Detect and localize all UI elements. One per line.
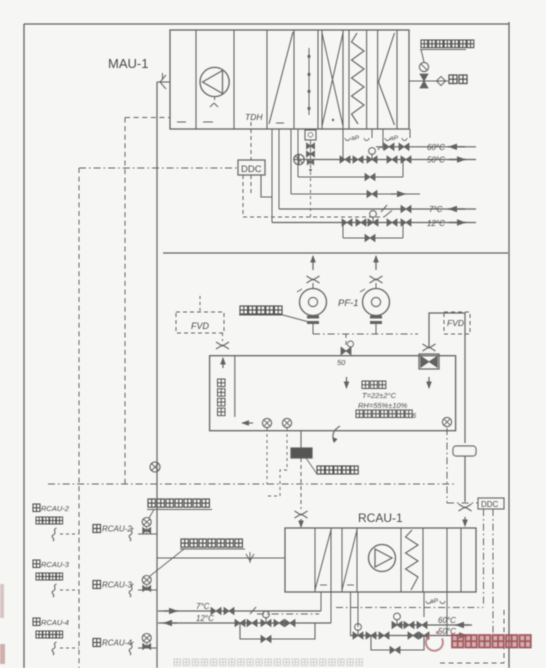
svg-text:TDH: TDH <box>245 112 263 122</box>
motor valve 12C <box>368 219 378 226</box>
dashed drop to shaft <box>222 333 224 341</box>
exhaust fan PF-1 b <box>375 256 377 270</box>
label 新风电动密闭阀 row2 <box>181 539 242 547</box>
dash-dot control line to DDC <box>79 167 238 169</box>
branch label 接RCAU-3 <box>93 581 101 589</box>
label 新风电动密闭阀 row1 <box>148 499 209 507</box>
RCAU divider <box>330 528 332 592</box>
svg-text:12°C: 12°C <box>196 614 214 623</box>
svg-text:50°C: 50°C <box>427 156 445 165</box>
return air shaft wall <box>234 356 236 417</box>
DDC2 wire2 <box>492 509 494 640</box>
coil stub pair B with aP <box>382 129 384 138</box>
MAU section divider <box>293 30 295 129</box>
leader <box>421 50 424 63</box>
RCAU divider <box>356 528 358 592</box>
12C line RCAU <box>158 622 331 624</box>
border top <box>24 23 509 25</box>
leader <box>283 315 309 322</box>
return inlet flex left <box>295 511 308 518</box>
svg-text:DDC: DDC <box>481 500 499 509</box>
svg-text:FVD: FVD <box>447 318 464 328</box>
fresh air riser <box>156 82 158 668</box>
dash marks in MAU cells <box>177 121 186 123</box>
label 新风电动密闭阀 (top) <box>421 40 474 48</box>
12C chilled return line <box>272 222 476 224</box>
muffler <box>453 446 476 456</box>
bypass loop 7/12 <box>343 237 403 239</box>
fire damper FVD left dashed box <box>176 312 224 333</box>
svg-text:T=22±2°C: T=22±2°C <box>362 391 397 400</box>
svg-text:RCAU-3: RCAU-3 <box>102 581 132 590</box>
DDC controller box <box>238 160 265 175</box>
fresh air label 新风 <box>449 75 467 84</box>
RCAU coil stubs with aP <box>423 592 425 601</box>
probe squiggle + wire <box>52 584 56 597</box>
steam line dashed <box>310 172 312 217</box>
bypass loop RCAU chilled <box>240 623 315 639</box>
probe squiggle + wire <box>52 528 56 541</box>
DDC2 wire <box>483 509 485 607</box>
dashed enclosure bottom right <box>503 610 505 663</box>
floor line <box>163 252 508 254</box>
riser from RCAU2 <box>357 592 359 627</box>
riser <box>320 592 322 611</box>
RCAU divider <box>422 528 424 592</box>
airflow arrow into shaft <box>243 422 253 424</box>
duct from cleanroom to silencer <box>300 431 302 448</box>
shaft label 回风夹道 <box>218 379 226 416</box>
RCAU divider <box>400 528 402 592</box>
motor valve 12C RCAU <box>261 620 271 627</box>
temp probe label RCAU-3 <box>33 560 40 568</box>
control trunk <box>48 483 455 485</box>
scan artifact left edge <box>0 584 4 618</box>
branch RCAU-3 <box>129 584 133 597</box>
exhaust fan PF-1 a <box>312 256 314 270</box>
dashed control to 7C valve <box>243 216 384 218</box>
7C chilled supply line <box>279 208 476 210</box>
svg-text:50: 50 <box>337 358 346 367</box>
motorized airtight damper (vertical bowtie + actuator circle) <box>420 74 428 88</box>
riser <box>297 129 299 177</box>
motor valve 50C <box>367 156 377 163</box>
cleanroom box <box>210 356 456 431</box>
riser from AHU to 7C <box>278 129 280 209</box>
MAU section divider <box>321 30 323 129</box>
svg-text:aP: aP <box>430 598 439 605</box>
fresh air duct line <box>409 80 448 82</box>
svg-text:RCAU-4: RCAU-4 <box>102 639 132 648</box>
circulating pump <box>294 154 304 164</box>
MAU filter diagonal <box>269 32 293 124</box>
fresh air branch to RCAU <box>157 557 285 559</box>
MAU section divider <box>377 30 379 129</box>
riser from RCAU <box>350 592 352 636</box>
dashed control to valves <box>336 607 483 609</box>
svg-text:7°C: 7°C <box>196 602 210 611</box>
svg-text:aP: aP <box>390 135 399 142</box>
RCAU divider <box>314 528 316 592</box>
temp probe label RCAU-4 <box>33 618 40 626</box>
MAU-1 AHU box <box>170 30 409 129</box>
MAU heating coil zigzag <box>352 33 365 124</box>
dashed riser x125 <box>124 118 126 485</box>
return swirl arc <box>333 426 340 442</box>
RCAU filters <box>315 530 331 590</box>
fire damper FVD right dashed box <box>444 312 470 334</box>
svg-text:7°C: 7°C <box>429 205 443 214</box>
RCAU divider <box>446 528 448 592</box>
60C supply line <box>376 146 476 148</box>
svg-text:MAU-1: MAU-1 <box>108 56 148 71</box>
manual valve label 手动密闭阀 <box>240 306 282 314</box>
svg-text:FVD: FVD <box>191 321 210 331</box>
supply branch to cleanroom <box>345 334 347 347</box>
svg-text:DDC: DDC <box>241 164 262 175</box>
MAU-1 supply fan <box>200 67 229 96</box>
outside air inlet stub <box>157 81 170 83</box>
RCAU coil zigzag <box>406 530 419 590</box>
MAU section divider <box>233 30 235 129</box>
50C return line <box>294 159 476 161</box>
drain line with arrow <box>291 193 420 195</box>
MAU section divider <box>342 30 344 129</box>
steam humidifier valve assembly <box>305 130 316 140</box>
svg-text:aP: aP <box>351 135 360 142</box>
riser coil to 50C <box>342 138 344 160</box>
diamond symbol <box>436 76 445 85</box>
eliminator section <box>379 33 395 125</box>
faint caption <box>174 659 362 665</box>
TDH dashed leader <box>250 122 252 160</box>
svg-text:12°C: 12°C <box>427 219 445 228</box>
tick <box>250 607 256 614</box>
svg-text:6: 6 <box>412 411 417 420</box>
room condition text <box>362 381 386 389</box>
svg-text:RCAU-2: RCAU-2 <box>102 525 132 534</box>
DDC controller box 2 <box>478 498 504 509</box>
riser coil to 60C <box>382 138 384 147</box>
silencer box <box>291 448 312 458</box>
temp probe label RCAU-2 <box>33 504 40 512</box>
MAU section divider <box>317 30 319 129</box>
label 消音静压箱 <box>317 466 358 474</box>
relief duct path <box>429 313 465 443</box>
MAU section divider <box>366 30 368 129</box>
control wires from dP sensors <box>266 428 268 484</box>
svg-text:RH=55%±10%: RH=55%±10% <box>358 401 408 410</box>
riser <box>330 592 332 623</box>
leader <box>149 510 154 519</box>
svg-text:PF-1: PF-1 <box>338 298 359 309</box>
svg-text:RCAU-2: RCAU-2 <box>41 504 70 513</box>
riser <box>423 601 425 617</box>
MAU section divider <box>348 30 350 129</box>
branch RCAU-2 <box>129 528 133 541</box>
check symbol <box>378 147 384 150</box>
probe squiggle + wire <box>52 642 56 655</box>
dashed return duct down to RCAU <box>300 458 302 509</box>
branch label 接RCAU-2 <box>93 525 101 533</box>
damper tick <box>246 554 254 561</box>
dash-dot stub <box>257 613 319 615</box>
humidifier spray line <box>308 48 310 115</box>
riser <box>402 160 404 178</box>
MAU section divider <box>396 30 398 129</box>
RCAU divider <box>460 528 462 592</box>
50C line RCAU <box>350 635 470 637</box>
motorized valve on riser (mid) <box>150 462 160 472</box>
RCAU-1 box <box>285 528 476 592</box>
dashed sensor riser x79 <box>78 168 80 668</box>
border left <box>23 24 25 668</box>
svg-text:RCAU-3: RCAU-3 <box>41 560 70 569</box>
svg-text:RCAU-1: RCAU-1 <box>358 511 403 525</box>
motor valve 60C <box>392 622 402 629</box>
7C line RCAU <box>158 610 321 612</box>
MAU section divider <box>266 30 268 129</box>
red watermark logo <box>426 631 443 651</box>
RCAU fan <box>369 545 396 572</box>
MAU section divider <box>195 30 197 129</box>
coil stub pair A with aP <box>342 129 344 138</box>
DDC output connector <box>261 175 272 197</box>
riser <box>290 129 292 194</box>
border right <box>508 22 510 668</box>
branch RCAU-4 <box>129 642 133 655</box>
bypass loop 60/50 <box>298 176 403 178</box>
dash-dot duct line between fans <box>313 333 418 335</box>
leader <box>150 549 184 576</box>
bypass loop RCAU hot <box>371 636 424 651</box>
svg-text:60°C: 60°C <box>427 143 445 152</box>
dashed to MAU <box>125 117 170 119</box>
riser from AHU to 12C <box>271 129 273 223</box>
riser <box>446 601 448 636</box>
tick <box>381 205 387 212</box>
branch label 接RCAU-4 <box>93 639 101 647</box>
MAU cooling coil X section <box>322 33 343 126</box>
motor valve 50C <box>353 632 363 639</box>
damper box on cleanroom top <box>419 354 439 369</box>
60C line RCAU <box>395 624 472 626</box>
sensor to DDC2 wire <box>446 428 448 503</box>
svg-text:RCAU-4: RCAU-4 <box>41 618 69 627</box>
red watermark text 中电环境科技 <box>452 635 531 648</box>
DDC wire down <box>242 175 244 217</box>
dP sensor right <box>442 417 451 426</box>
leader <box>306 458 317 474</box>
dP sensors on floor <box>262 418 271 427</box>
RCAU divider <box>341 528 343 592</box>
